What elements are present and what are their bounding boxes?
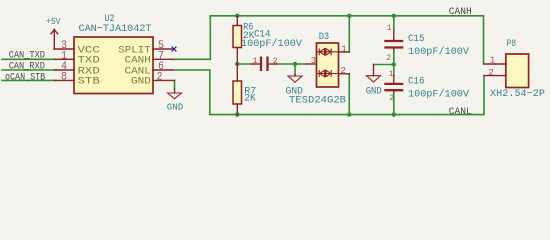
svg-text:CANL: CANL	[449, 106, 472, 118]
svg-text:2: 2	[157, 71, 163, 83]
svg-text:C15: C15	[408, 33, 425, 45]
svg-text:GND: GND	[167, 101, 184, 112]
svg-text:1: 1	[490, 56, 495, 66]
svg-text:GND: GND	[366, 87, 382, 98]
svg-text:STB: STB	[78, 76, 100, 88]
svg-text:oCAN_STB: oCAN_STB	[5, 71, 45, 83]
svg-text:1: 1	[341, 45, 346, 55]
svg-text:2K: 2K	[244, 93, 256, 105]
svg-text:C16: C16	[408, 76, 425, 88]
svg-text:1: 1	[387, 24, 392, 33]
svg-text:GND: GND	[286, 87, 304, 98]
svg-text:CANH: CANH	[449, 6, 472, 18]
svg-text:2: 2	[389, 94, 394, 103]
svg-text:1: 1	[253, 57, 258, 66]
svg-text:CAN−TJA1042T: CAN−TJA1042T	[79, 23, 152, 35]
svg-text:2: 2	[273, 57, 278, 66]
svg-text:100pF/100V: 100pF/100V	[408, 89, 470, 101]
svg-text:100pF/100V: 100pF/100V	[241, 38, 303, 50]
svg-text:P8: P8	[507, 38, 517, 50]
svg-text:2: 2	[488, 68, 493, 78]
svg-text:8: 8	[61, 71, 67, 83]
svg-text:100pF/100V: 100pF/100V	[408, 46, 470, 58]
svg-text:3: 3	[311, 56, 316, 66]
svg-text:1: 1	[389, 70, 394, 79]
svg-text:XH2.54−2P: XH2.54−2P	[490, 88, 545, 100]
svg-text:2: 2	[386, 54, 391, 63]
svg-text:D3: D3	[319, 31, 330, 43]
svg-text:2: 2	[341, 66, 346, 76]
svg-text:+5V: +5V	[46, 16, 61, 27]
svg-text:GND: GND	[131, 76, 151, 88]
